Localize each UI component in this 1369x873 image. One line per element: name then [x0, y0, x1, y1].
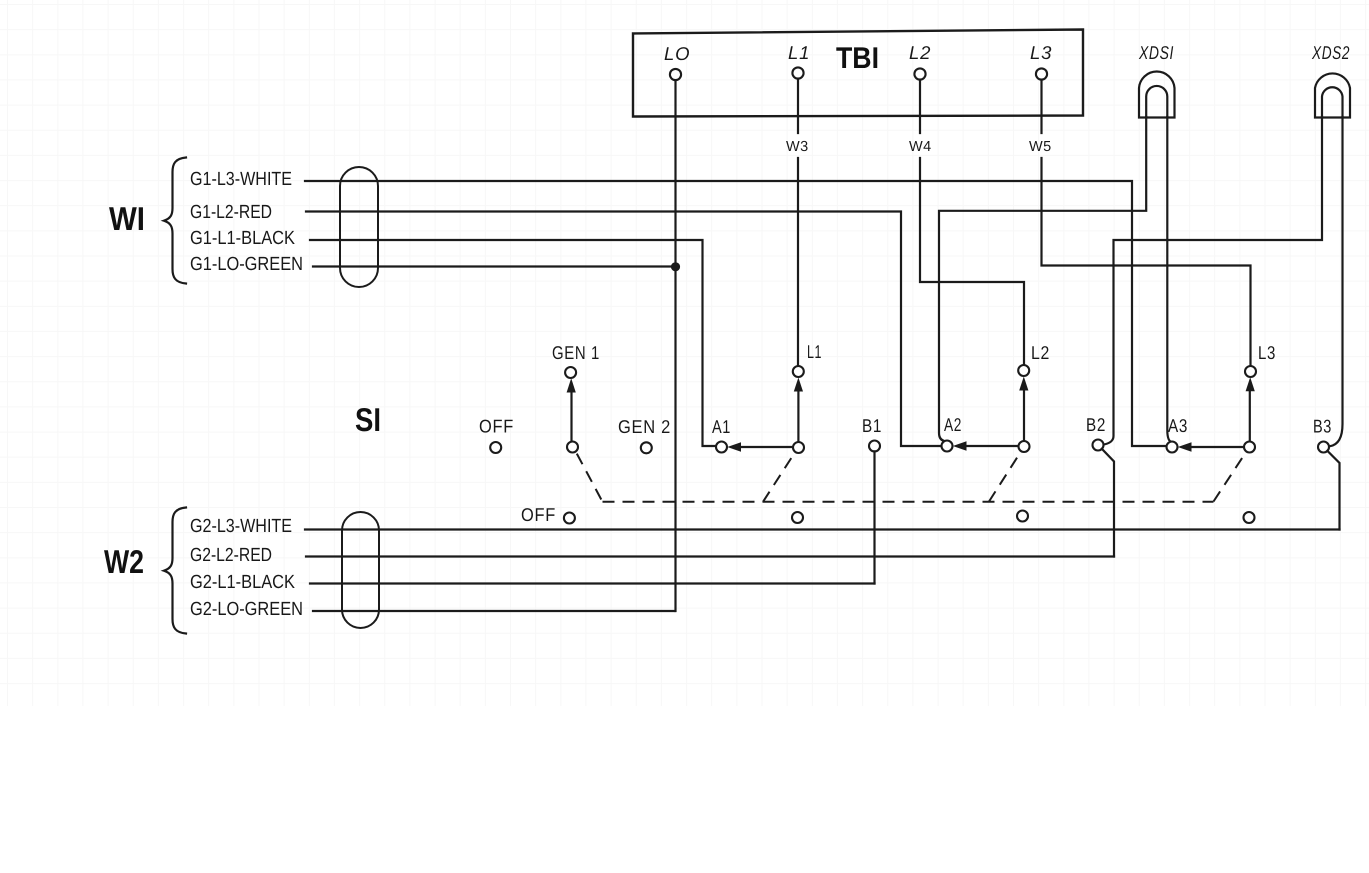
contact OFF lower [564, 513, 575, 524]
pole3 arm to L3 with arrow [1246, 377, 1255, 442]
svg-text:G2-LO-GREEN: G2-LO-GREEN [190, 599, 303, 620]
contact L1 [793, 366, 804, 377]
terminal L1 [788, 42, 810, 79]
contact A3 [1167, 442, 1178, 453]
wire G2-L2-RED [306, 555, 1114, 557]
wire B3 to G2-L3-WHITE [1327, 451, 1339, 530]
contact GEN1 common [567, 442, 578, 453]
svg-text:L1: L1 [807, 341, 822, 362]
pole2 arm to L2 with arrow [1019, 377, 1028, 442]
contact pole1 unused [792, 512, 803, 523]
wire B2 to G2-L2-RED [1102, 449, 1114, 557]
mechanical linkage dashed [577, 453, 1246, 502]
terminal L2 [909, 42, 931, 80]
terminal L3 [1030, 42, 1052, 80]
contact pole1 common [793, 442, 804, 453]
contact B2 [1093, 440, 1104, 451]
svg-text:G1-LO-GREEN: G1-LO-GREEN [190, 254, 303, 275]
svg-text:L2: L2 [909, 42, 931, 63]
wire W4: TB1-L2 to switch L2 [920, 80, 1024, 365]
svg-text:OFF: OFF [521, 504, 556, 525]
indicator lamp XDS2 [1311, 42, 1350, 118]
terminal LO [664, 43, 690, 80]
svg-text:L1: L1 [788, 42, 810, 63]
svg-text:LO: LO [664, 43, 690, 64]
wire lamp XDS1 right to A3 top [1167, 117, 1172, 442]
cable oval W2 [342, 512, 379, 628]
svg-text:A1: A1 [712, 416, 731, 437]
svg-text:W3: W3 [786, 139, 809, 155]
brace W2 [164, 508, 186, 634]
svg-text:XDS2: XDS2 [1311, 42, 1350, 63]
svg-text:OFF: OFF [479, 416, 514, 437]
wire W3: TB1-L1 to switch L1 [797, 79, 799, 366]
contact GEN2 [641, 442, 652, 453]
contact pole3 unused [1244, 512, 1255, 523]
wire W5: TB1-L3 to switch L3 [1042, 80, 1251, 366]
wire G1-L3-WHITE to A3 [305, 181, 1167, 446]
wire G1-L2-RED to A2 [306, 212, 942, 447]
contact pole2 common [1019, 441, 1030, 452]
svg-text:W4: W4 [909, 139, 932, 155]
contact B1 [869, 441, 880, 452]
pole1 arm to L1 with arrow [794, 378, 803, 443]
contact A2 [942, 441, 953, 452]
svg-text:SI: SI [355, 401, 381, 438]
wire lamp XDS1 left to A2 top [939, 117, 1146, 442]
wire G2-L1-BLACK [310, 582, 875, 584]
svg-text:L2: L2 [1031, 342, 1050, 363]
svg-text:A3: A3 [1168, 415, 1188, 436]
wire G2-L3-WHITE [305, 528, 1340, 530]
svg-text:G1-L2-RED: G1-L2-RED [190, 202, 272, 223]
svg-text:GEN 2: GEN 2 [618, 416, 671, 437]
pole3 wiper arrow to A3 [1178, 442, 1245, 451]
svg-text:TBI: TBI [836, 42, 879, 75]
svg-text:L3: L3 [1258, 342, 1276, 363]
contact pole3 common [1244, 442, 1255, 453]
contact GEN1 target [565, 367, 576, 378]
svg-text:B2: B2 [1086, 414, 1106, 435]
svg-text:G1-L1-BLACK: G1-L1-BLACK [190, 228, 295, 249]
contact L3 [1245, 366, 1256, 377]
brace W1 [164, 158, 186, 284]
svg-text:G1-L3-WHITE: G1-L3-WHITE [190, 169, 292, 190]
svg-text:B3: B3 [1313, 416, 1332, 437]
contact A1 [716, 442, 727, 453]
wire G1-LO-GREEN to junction [313, 265, 672, 267]
svg-text:G2-L2-RED: G2-L2-RED [190, 545, 272, 566]
svg-text:W5: W5 [1029, 139, 1052, 155]
wire lamp XDS2 left to B2 top [1103, 117, 1322, 445]
pole2 wiper arrow to A2 [953, 441, 1019, 450]
svg-text:A2: A2 [944, 414, 962, 435]
contact pole2 unused [1017, 511, 1028, 522]
rotor arm GEN1 with arrow [567, 378, 576, 441]
indicator lamp XDS1 [1138, 42, 1174, 118]
svg-text:G2-L1-BLACK: G2-L1-BLACK [190, 572, 295, 593]
svg-text:GEN 1: GEN 1 [552, 342, 600, 363]
wire G2-LO-GREEN [313, 610, 675, 612]
wire lamp XDS2 right to B3 [1330, 117, 1343, 446]
svg-text:G2-L3-WHITE: G2-L3-WHITE [190, 516, 292, 537]
wire B1 to G2-L1-BLACK [873, 451, 875, 583]
svg-text:L3: L3 [1030, 42, 1052, 63]
terminal block TB1 box [633, 30, 1083, 117]
svg-text:XDSI: XDSI [1138, 42, 1174, 63]
cable oval W1 [340, 167, 378, 287]
contact OFF [490, 442, 501, 453]
svg-text:WI: WI [109, 200, 145, 237]
pole1 wiper arrow to A1 [727, 442, 793, 451]
wire TB1-LO vertical [674, 80, 676, 611]
junction dot LO/GREEN [671, 262, 680, 271]
contact L2 [1018, 365, 1029, 376]
svg-text:W2: W2 [104, 543, 144, 580]
wire G1-L1-BLACK to A1 [310, 240, 716, 446]
svg-text:B1: B1 [862, 415, 882, 436]
contact B3 [1318, 442, 1329, 453]
